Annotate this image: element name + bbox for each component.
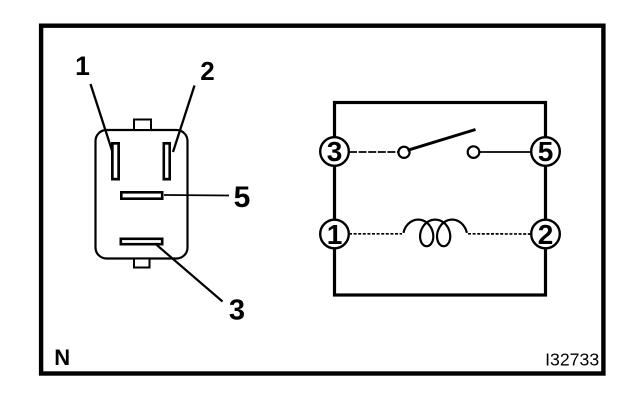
pin 2 slot — [163, 142, 172, 181]
svg-text:3: 3 — [327, 136, 343, 167]
switch arm — [408, 130, 476, 151]
terminal 3 — [320, 136, 349, 167]
svg-text:5: 5 — [538, 136, 554, 167]
connector bottom tab — [134, 259, 150, 268]
svg-text:3: 3 — [229, 294, 245, 326]
relay connector body — [96, 130, 188, 259]
terminal 1 — [320, 219, 349, 250]
wire switch contact to terminal5 — [480, 151, 532, 153]
pin 3 slot — [120, 238, 164, 246]
svg-text:1: 1 — [75, 51, 90, 81]
border frame — [41, 26, 603, 374]
terminal 5 — [531, 136, 560, 167]
svg-text:1: 1 — [327, 219, 343, 250]
svg-text:N: N — [54, 345, 70, 370]
pin 1 slot — [111, 142, 120, 181]
schematic box — [335, 103, 546, 296]
coil L1 — [404, 220, 467, 247]
pin 5 slot — [120, 191, 164, 200]
svg-text:I32733: I32733 — [545, 350, 599, 370]
leader line 3 — [155, 244, 223, 302]
svg-text:2: 2 — [200, 56, 214, 86]
connector top tab — [134, 120, 151, 131]
wire terminal1 to coil — [349, 233, 402, 235]
leader line 1 — [91, 84, 113, 152]
svg-text:5: 5 — [234, 181, 251, 214]
wire terminal3 to switch contact — [349, 151, 399, 153]
leader line 2 — [173, 86, 195, 153]
leader line 5 — [164, 194, 229, 197]
svg-text:2: 2 — [538, 219, 554, 250]
wire coil to terminal2 — [468, 233, 531, 235]
terminal 2 — [531, 219, 560, 250]
switch contact B — [468, 146, 480, 158]
switch contact A — [398, 147, 409, 158]
